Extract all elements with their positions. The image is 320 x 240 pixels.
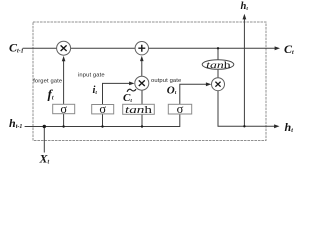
wire: h to sigma2 <box>102 114 104 127</box>
wire: sigma2 up and right to x2 <box>103 83 131 104</box>
multiply node x1 <box>57 41 71 55</box>
svg-text:input gate: input gate <box>78 73 105 79</box>
junction sigma1/h <box>62 125 64 127</box>
add node + <box>135 42 148 55</box>
wire: x2 up into plus <box>141 59 143 76</box>
junction C/tanh tap <box>217 47 219 49</box>
multiply node x3 <box>212 78 225 91</box>
arrowhead into x3 <box>206 82 211 86</box>
wire: tanh oval to x3 <box>217 69 219 77</box>
junction h/ht-up <box>243 125 245 127</box>
wire: C line down to tanh oval <box>217 48 219 60</box>
tanh box <box>123 104 155 114</box>
multiply node x2 <box>135 76 149 90</box>
junction Xt/h <box>43 125 46 128</box>
svg-text:forget gate: forget gate <box>33 78 62 84</box>
wire: h to tanh box <box>141 114 143 126</box>
dashed cell boundary box <box>33 22 266 141</box>
svg-text:output gate: output gate <box>151 78 181 84</box>
arrowhead to Ct <box>275 46 280 50</box>
wire: x3 down to h line <box>217 90 219 126</box>
junction sigma2/h <box>101 125 103 127</box>
wire: Xt input vertical <box>43 127 45 153</box>
wire: h corner to sigma3 <box>179 114 181 127</box>
tilde of C~t <box>127 89 135 91</box>
wire: C line (Ct-1 to Ct) <box>23 47 277 49</box>
sigma box 1 (forget gate) <box>53 104 75 113</box>
arrowhead to ht top <box>243 14 247 20</box>
wire: sigma1 to x1 circle vertical <box>63 60 65 105</box>
arrowhead to ht right <box>274 124 279 128</box>
junction tanh/h <box>141 125 143 127</box>
svg-text:σ: σ <box>60 102 67 116</box>
arrowhead into x2 <box>129 82 134 86</box>
wire: h line up to ht top <box>243 18 245 126</box>
wire: h to sigma1 <box>63 114 65 127</box>
tanh oval <box>202 60 234 70</box>
wire: sigma3 up and right to x3 <box>180 84 209 104</box>
wire: h line right (to ht) <box>218 125 276 127</box>
sigma box 3 (output gate) <box>168 104 191 114</box>
wire: h line left (ht-1 into gates) <box>25 126 181 128</box>
sigma box 2 (input gate) <box>92 105 114 114</box>
wire: tanh box to x2 <box>141 90 143 104</box>
svg-text:tanh: tanh <box>206 61 231 71</box>
svg-text:σ: σ <box>99 102 106 116</box>
svg-text:tanh: tanh <box>125 104 153 116</box>
arrowhead into x1 <box>62 56 66 61</box>
svg-text:σ: σ <box>177 102 184 116</box>
arrowhead into plus <box>140 56 144 61</box>
